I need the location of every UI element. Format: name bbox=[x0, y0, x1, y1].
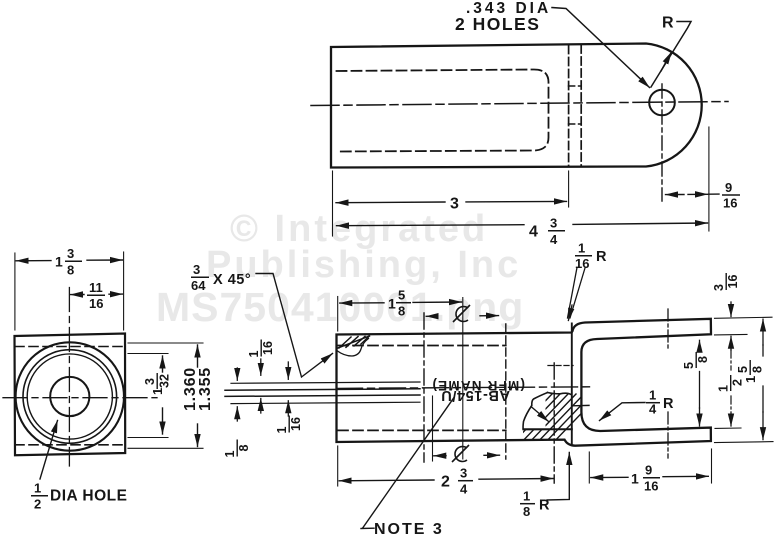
label 11/16 bbox=[87, 280, 105, 311]
svg-text:16: 16 bbox=[726, 275, 740, 289]
chamfer break line freehand bbox=[337, 339, 369, 357]
ext line right bbox=[123, 252, 125, 330]
dim 3 left arrow bbox=[336, 201, 445, 204]
dim 1.360 up arrow bbox=[197, 345, 199, 367]
hidden web line right bbox=[580, 45, 582, 166]
svg-text:3: 3 bbox=[143, 378, 157, 385]
svg-text:3: 3 bbox=[460, 466, 467, 481]
label 1/16 R top bbox=[575, 241, 592, 272]
top view horizontal centerline bbox=[311, 102, 728, 106]
bottom CL dim left arrow bbox=[434, 455, 446, 457]
svg-text:4: 4 bbox=[529, 224, 538, 241]
dim 2 3/4 left arrow bbox=[339, 479, 434, 482]
svg-text:1: 1 bbox=[34, 481, 41, 496]
svg-text:AB-154/U: AB-154/U bbox=[441, 387, 510, 403]
svg-text:9: 9 bbox=[645, 463, 652, 478]
dim 1.360 down arrow bbox=[197, 424, 199, 447]
label 1/8 R bottom bbox=[520, 489, 535, 520]
dim 11/16 right arrow bbox=[109, 293, 122, 295]
counterbore edge in web bbox=[572, 404, 589, 406]
svg-text:2: 2 bbox=[34, 497, 41, 512]
svg-text:16: 16 bbox=[261, 341, 275, 355]
svg-text:Publishing, Inc: Publishing, Inc bbox=[206, 244, 521, 286]
label 1 3/32 rotated bbox=[143, 373, 172, 395]
dim 4 3/4 left arrow bbox=[337, 225, 525, 226]
label AB-154/U (MFR NAME) rotated 180 bbox=[431, 378, 525, 403]
label 5/8 rotated bbox=[682, 352, 710, 369]
ext right y334 bbox=[715, 333, 748, 336]
dim 1 5/8 overall line bbox=[762, 345, 764, 412]
dim 1 9/16 left arrow bbox=[591, 476, 628, 478]
dim 3/16 down arrow bbox=[730, 302, 732, 317]
ext right y442 bbox=[715, 442, 774, 443]
svg-text:16: 16 bbox=[289, 417, 303, 431]
CL symbol top bbox=[453, 305, 470, 322]
hole 1/2 dia bbox=[50, 377, 89, 416]
dim 1 5/8 left arrow bbox=[340, 302, 384, 304]
svg-text:1: 1 bbox=[275, 426, 289, 433]
svg-text:3: 3 bbox=[67, 246, 74, 261]
dim 3 right arrow bbox=[466, 200, 567, 203]
extension line left edge bbox=[332, 171, 334, 236]
svg-text:16: 16 bbox=[644, 479, 658, 494]
dim 2 3/4 right arrow bbox=[479, 478, 553, 481]
svg-text:1: 1 bbox=[649, 388, 656, 403]
svg-text:8: 8 bbox=[523, 504, 530, 519]
label 3/16 rotated bbox=[712, 273, 740, 291]
dim 1 9/16 right arrow bbox=[663, 475, 708, 477]
short hidden dash bbox=[548, 365, 573, 367]
label 1/2 rotated bbox=[717, 375, 745, 392]
dim 9/16 stub to text bbox=[709, 193, 720, 195]
extension vertical x463 bbox=[462, 298, 464, 460]
svg-text:4: 4 bbox=[550, 232, 558, 247]
hidden slot dashed bbox=[337, 70, 549, 152]
svg-text:R: R bbox=[596, 249, 607, 265]
hidden web line left bbox=[568, 46, 570, 167]
top CL dim right arrow bbox=[480, 315, 499, 317]
top view outline bbox=[331, 44, 702, 168]
thin line d bbox=[231, 402, 420, 403]
hidden line top bbox=[15, 346, 125, 348]
svg-text:4: 4 bbox=[460, 482, 468, 497]
counterbore floor line bbox=[523, 428, 572, 430]
boss mini arrow bbox=[531, 407, 549, 422]
boss hole centerline x554 bbox=[553, 363, 555, 483]
dim 5/8 line lower bbox=[699, 372, 701, 409]
svg-text:2 HOLES: 2 HOLES bbox=[455, 14, 540, 34]
thin line b bbox=[225, 389, 420, 390]
svg-text:1: 1 bbox=[388, 296, 396, 312]
svg-text:5: 5 bbox=[736, 366, 750, 373]
chamfer hatch strokes bbox=[339, 336, 369, 348]
1/4R leader bbox=[600, 403, 646, 421]
extension line hidden web bbox=[568, 171, 570, 207]
svg-text:8: 8 bbox=[751, 366, 765, 373]
dim 1/2 down arrow bbox=[730, 412, 732, 426]
dim 1 3/32 down arrow bbox=[162, 408, 164, 434]
dim 1 5/8 right arrow bbox=[413, 301, 462, 303]
web left face visible edge bbox=[571, 324, 573, 445]
small arrows x261 bbox=[260, 359, 262, 375]
svg-text:1: 1 bbox=[247, 350, 261, 357]
dim 1 3/8 right arrow bbox=[87, 259, 122, 261]
svg-text:1: 1 bbox=[578, 241, 585, 256]
label 1/16 rotated upper bbox=[247, 340, 275, 358]
svg-text:1: 1 bbox=[523, 489, 530, 504]
svg-text:3: 3 bbox=[550, 216, 557, 231]
label 9/16 bbox=[722, 180, 740, 211]
dim 9/16 right arrow bbox=[688, 193, 708, 195]
dim 1/2 dashdot upper bbox=[730, 350, 732, 370]
chamfer leader 3/64 bbox=[256, 274, 333, 378]
outer circle bbox=[16, 342, 124, 450]
svg-text:DIA HOLE: DIA HOLE bbox=[50, 488, 127, 505]
flange hole centerline bottom bbox=[667, 412, 669, 458]
svg-text:11: 11 bbox=[89, 280, 103, 295]
leader R elbow bbox=[651, 22, 691, 88]
ext 1 9/16 right bbox=[711, 449, 713, 483]
bottom CL ext vertical bbox=[432, 396, 434, 461]
dim 1 5/8 overall down arrow bbox=[762, 412, 764, 440]
hidden rung upper bbox=[569, 85, 582, 87]
svg-text:16: 16 bbox=[89, 296, 103, 311]
label 1 5/8 overall rotated bbox=[736, 360, 765, 383]
flange hole centerline top bbox=[667, 309, 669, 348]
dim 1.360 ext bottom bbox=[128, 447, 203, 449]
hidden line bottom bbox=[15, 444, 125, 446]
NOTE 3 leader bbox=[361, 398, 454, 529]
svg-text:R: R bbox=[539, 498, 550, 514]
ring 3 bbox=[27, 354, 112, 439]
dim 1 3/32 ext top bbox=[128, 353, 168, 355]
svg-text:1: 1 bbox=[743, 376, 758, 383]
dim 1 3/32 up arrow bbox=[162, 356, 164, 372]
chamfer wedge hypotenuse bbox=[337, 336, 370, 349]
svg-text:4: 4 bbox=[649, 402, 657, 417]
vertical centerline bbox=[68, 288, 70, 467]
svg-text:3: 3 bbox=[193, 262, 200, 277]
ext right y317 bbox=[715, 317, 773, 318]
label 1.360 1.355 rotated bbox=[182, 367, 199, 411]
svg-text:1: 1 bbox=[717, 385, 731, 392]
svg-text:16: 16 bbox=[575, 256, 589, 271]
label 1/8 rotated bbox=[223, 440, 251, 458]
dim 1/2 dashdot lower bbox=[730, 396, 732, 412]
svg-text:3: 3 bbox=[450, 196, 459, 213]
svg-text:NOTE 3: NOTE 3 bbox=[374, 521, 444, 537]
ext 1 9/16 left bbox=[588, 452, 590, 483]
svg-text:5: 5 bbox=[398, 288, 405, 303]
svg-text:5: 5 bbox=[682, 362, 696, 369]
1/16R leader line 2 bbox=[570, 268, 585, 318]
svg-text:1: 1 bbox=[223, 450, 237, 457]
svg-text:16: 16 bbox=[723, 196, 737, 211]
dim 4 3/4 right arrow bbox=[573, 223, 708, 224]
dim 1 3/8 left arrow bbox=[16, 260, 51, 262]
svg-text:X 45°: X 45° bbox=[213, 272, 251, 288]
boss hatch strokes bbox=[484, 394, 600, 448]
horizontal centerline bbox=[3, 397, 157, 399]
dim 5/8 down arrow bbox=[699, 408, 701, 426]
section horizontal centerline bbox=[337, 387, 593, 389]
label 1/16 rotated lower bbox=[275, 416, 303, 434]
hole vertical centerline bbox=[661, 84, 663, 201]
hidden vertical right of slot bbox=[505, 324, 507, 459]
top CL dim left arrow bbox=[426, 315, 437, 317]
extension line arc right bbox=[708, 127, 710, 231]
dim 3/16 up arrow bbox=[730, 336, 732, 350]
vertical centerline x424 bbox=[423, 313, 425, 462]
hidden slot top bbox=[338, 345, 506, 347]
svg-text:1.355: 1.355 bbox=[197, 367, 214, 411]
hole .343 bbox=[649, 90, 675, 116]
boss blob freehand outline bbox=[523, 393, 548, 430]
1/16R leader line 1 bbox=[568, 268, 578, 319]
CL symbol bottom bbox=[452, 445, 469, 462]
ext right y428 bbox=[715, 427, 741, 429]
hidden slot bottom bbox=[338, 429, 506, 431]
dim 1 5/8 overall up arrow bbox=[762, 319, 764, 345]
ext line left bbox=[14, 253, 16, 330]
svg-text:8: 8 bbox=[237, 444, 251, 451]
label 3/64 X 45 bbox=[191, 262, 209, 293]
dim 11/16 left arrow bbox=[71, 294, 85, 296]
svg-text:2: 2 bbox=[441, 474, 450, 491]
leader 1/2 dia hole bbox=[40, 421, 58, 480]
label 1/4 R bbox=[646, 388, 660, 417]
thin line a bbox=[231, 382, 420, 383]
dim 9/16 left arrow bbox=[666, 194, 685, 196]
svg-text:8: 8 bbox=[398, 304, 405, 319]
svg-text:1: 1 bbox=[55, 254, 63, 270]
svg-text:9: 9 bbox=[725, 180, 732, 195]
square outline bbox=[15, 334, 126, 456]
1/8R leader bbox=[547, 453, 569, 501]
svg-text:R: R bbox=[663, 396, 674, 412]
svg-text:32: 32 bbox=[158, 374, 172, 388]
thin line c bbox=[225, 395, 420, 396]
ring 2 bbox=[23, 350, 117, 444]
ext left bottom bbox=[337, 446, 339, 486]
dim 1 3/32 ext bottom bbox=[128, 437, 168, 439]
dim 5/8 up arrow bbox=[699, 340, 701, 351]
svg-text:1: 1 bbox=[631, 471, 639, 487]
svg-text:8: 8 bbox=[696, 356, 710, 363]
leader .343 DIA bbox=[552, 8, 650, 88]
svg-text:64: 64 bbox=[191, 278, 206, 293]
bottom CL dim right arrow bbox=[484, 454, 500, 456]
1/16R leader arrow bbox=[568, 305, 572, 321]
label 1/2 DIA HOLE bbox=[31, 481, 48, 512]
section outline bbox=[337, 319, 712, 446]
hidden rung lower bbox=[569, 123, 582, 125]
dim 1.360 ext top bbox=[128, 342, 203, 344]
svg-text:R: R bbox=[662, 15, 674, 32]
small arrows x288 bbox=[287, 362, 289, 379]
svg-text:8: 8 bbox=[67, 263, 74, 278]
leader R arrowhead on line bbox=[661, 52, 672, 71]
small arrows x237 bbox=[236, 368, 238, 380]
boss blob top right bbox=[548, 393, 572, 395]
svg-text:3: 3 bbox=[712, 284, 726, 291]
ext left top bbox=[337, 297, 339, 332]
